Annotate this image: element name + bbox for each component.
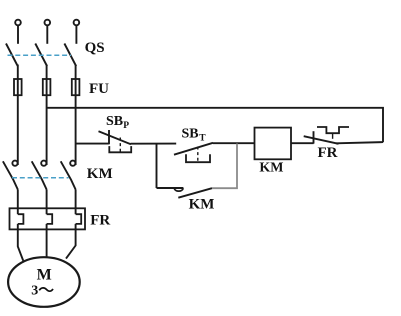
fuse FU2 body xyxy=(43,79,51,95)
wire KM coil to FR contact xyxy=(291,142,314,144)
svg-text:SB: SB xyxy=(182,127,199,142)
pushbutton SBt blade xyxy=(174,143,213,155)
pushbutton SBp actuator dashed link xyxy=(119,138,121,152)
FR heater element 1 xyxy=(18,214,24,224)
wire phase3 KM to FR box xyxy=(75,190,77,215)
FR heater element 2 xyxy=(47,214,53,224)
svg-text:M: M xyxy=(37,266,52,283)
svg-text:KM: KM xyxy=(259,161,283,176)
wire KM aux right lead (gray) xyxy=(212,144,237,189)
wire QS pole2 to fuse xyxy=(46,65,48,80)
svg-text:P: P xyxy=(123,121,129,131)
wire QS pole1 to fuse xyxy=(17,65,19,80)
svg-text:3: 3 xyxy=(31,283,38,298)
thermal contact FR blade xyxy=(304,136,339,144)
thermal element FR step symbol xyxy=(317,127,349,133)
thermal contact FR fixed tick xyxy=(313,131,315,143)
svg-text:QS: QS xyxy=(85,40,105,56)
FR heater element 3 xyxy=(76,214,82,224)
wire phase2 FR to motor xyxy=(46,224,48,258)
wire branch down from node to KM aux xyxy=(156,144,158,188)
pushbutton SBt actuator dashed link xyxy=(197,147,199,162)
wire phase3 fuse to KM contact xyxy=(75,79,77,165)
supply terminal circle L1 xyxy=(15,20,21,26)
wire QS pole3 to fuse xyxy=(75,65,77,80)
svg-text:FR: FR xyxy=(90,212,110,228)
switch QS pole 3 blade xyxy=(64,44,76,67)
svg-text:T: T xyxy=(199,133,206,143)
contactor KM main contact 2 fixed hook xyxy=(41,161,46,166)
switch QS pole 2 blade xyxy=(35,44,47,67)
contactor coil KM box xyxy=(255,128,292,160)
fuse FU3 body xyxy=(72,79,80,95)
KM aux contact fixed hook cup xyxy=(174,188,183,191)
thermal relay FR heater box xyxy=(10,208,86,229)
contactor KM main contact 3 fixed hook xyxy=(70,161,75,166)
wire phase3 FR to motor xyxy=(66,224,76,259)
thermal element FR trip tick xyxy=(332,133,334,139)
motor M circle xyxy=(8,257,80,307)
wire phase1 FR to motor xyxy=(18,224,23,261)
pushbutton SBt actuator bracket xyxy=(186,154,210,162)
wire KM aux left lead xyxy=(157,187,184,189)
switch QS pole 1 blade xyxy=(6,44,18,67)
svg-text:KM: KM xyxy=(189,196,215,212)
wire L2 drop to QS xyxy=(46,25,48,44)
wire phase1 fuse to KM contact xyxy=(17,79,19,165)
svg-text:SB: SB xyxy=(106,114,123,129)
QS linkage dashed line xyxy=(8,54,72,56)
wire FR contact to right bus xyxy=(336,142,383,143)
pushbutton SBp fixed contact tick xyxy=(108,130,110,144)
KM linkage dashed line xyxy=(12,177,69,179)
control top bus wire xyxy=(47,108,383,142)
contactor KM main contact 2 blade xyxy=(32,161,47,189)
contactor KM main contact 1 blade xyxy=(3,161,18,189)
wire phase2 KM to FR box xyxy=(46,190,48,215)
svg-text:FR: FR xyxy=(318,145,338,161)
contactor KM main contact 3 blade xyxy=(61,161,76,189)
svg-text:FU: FU xyxy=(89,81,109,97)
tilde of motor label xyxy=(39,288,53,291)
wire SBp to SBt xyxy=(131,143,177,145)
pushbutton SBp blade xyxy=(99,131,131,144)
wire L3 drop to QS xyxy=(75,25,77,44)
wire phase2 fuse to KM contact xyxy=(46,79,48,165)
wire phase1 KM to FR box xyxy=(17,190,19,215)
KM aux contact blade xyxy=(178,188,212,198)
supply terminal circle L3 xyxy=(74,20,80,26)
svg-text:KM: KM xyxy=(87,166,113,182)
wire L1 drop to QS xyxy=(17,25,19,44)
wire phase3 tap to SBp xyxy=(76,143,109,145)
contactor KM main contact 1 fixed hook xyxy=(12,161,17,166)
wire SBt to KM coil xyxy=(213,142,255,144)
supply terminal circle L2 xyxy=(45,20,51,26)
pushbutton SBp actuator bracket xyxy=(109,146,131,152)
fuse FU1 body xyxy=(14,79,22,95)
